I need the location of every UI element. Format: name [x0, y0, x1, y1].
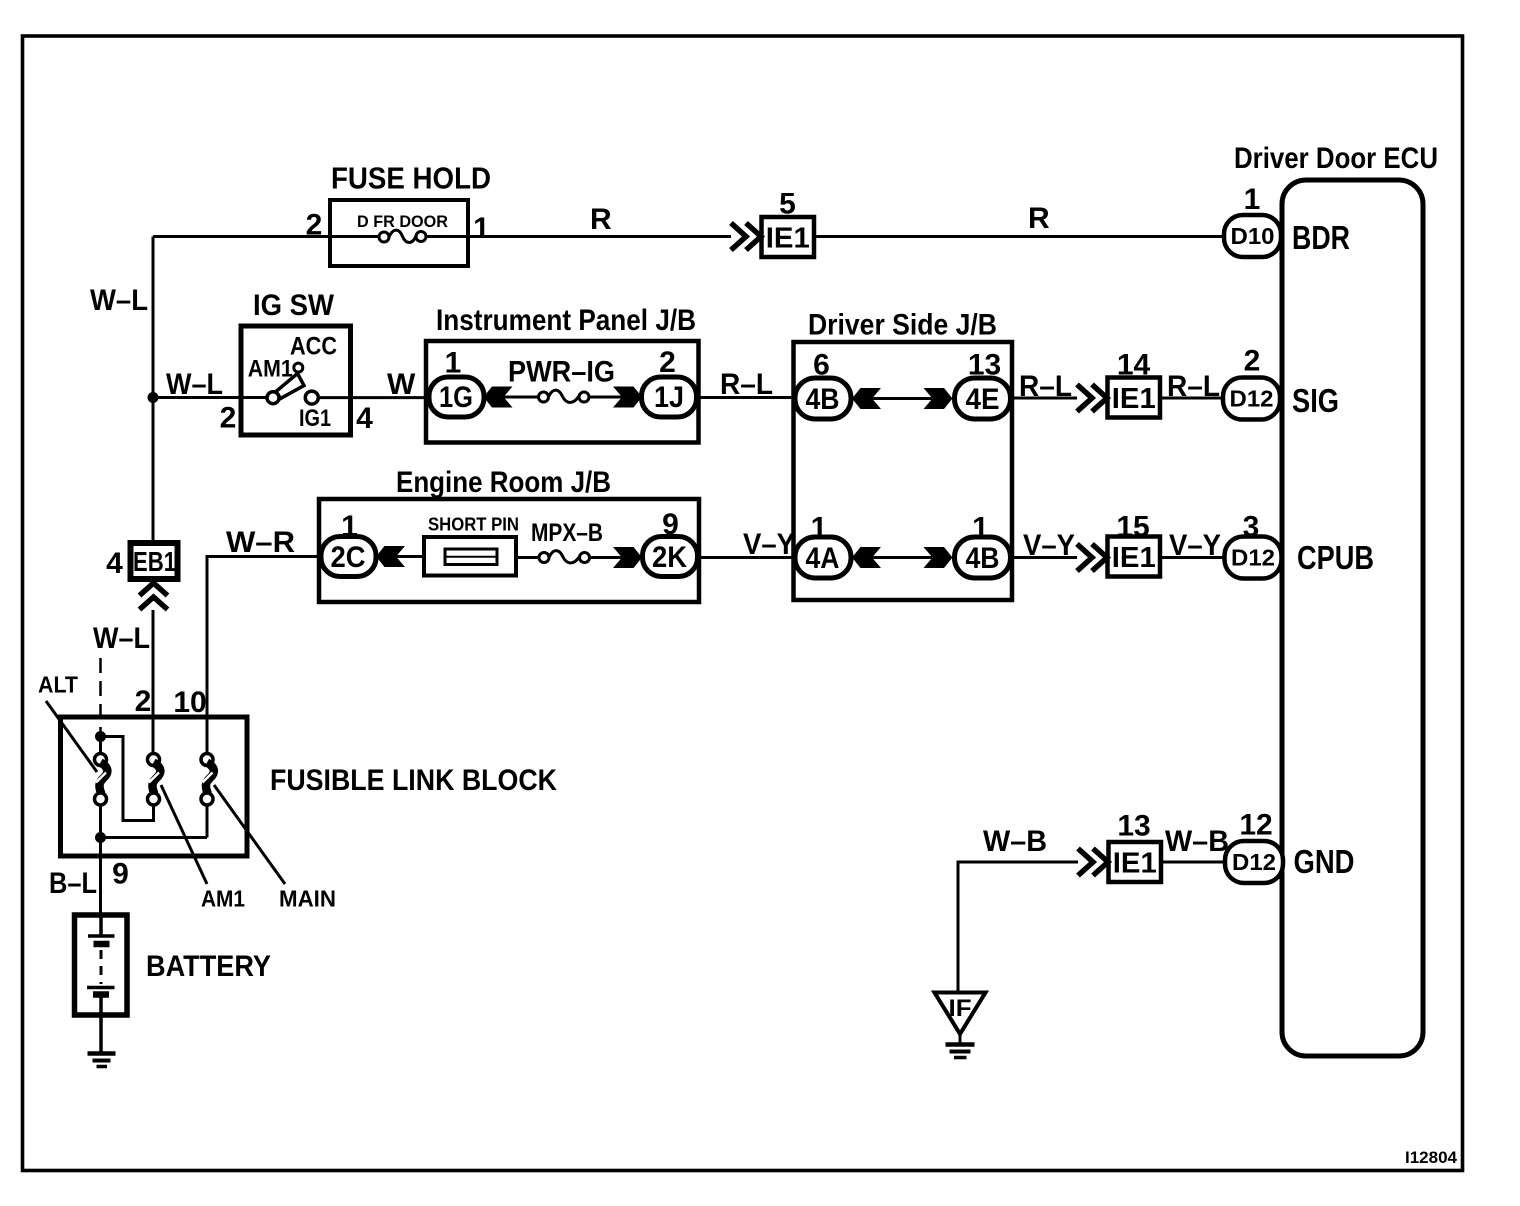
- arrow left DSJB upper: [852, 388, 881, 409]
- ground battery: [88, 1051, 116, 1056]
- svg-text:D10: D10: [1231, 223, 1275, 249]
- fuse D FR DOOR box: [330, 200, 468, 266]
- wire fuse PWR-IG: [504, 396, 540, 399]
- svg-text:V–Y: V–Y: [1169, 529, 1221, 562]
- connector 4B lower: [955, 537, 1011, 578]
- svg-text:SIG: SIG: [1292, 382, 1339, 419]
- svg-text:2C: 2C: [331, 541, 366, 574]
- svg-text:4: 4: [106, 547, 123, 580]
- svg-text:1: 1: [473, 212, 490, 245]
- connector 4E: [955, 378, 1011, 419]
- junction block Driver Side J/B: [794, 342, 1013, 600]
- svg-text:B–L: B–L: [49, 867, 97, 900]
- wire into IG SW: [153, 396, 267, 399]
- svg-text:R: R: [590, 203, 612, 236]
- svg-text:D12: D12: [1232, 849, 1276, 875]
- arrow right ERJB: [613, 547, 642, 568]
- svg-text:FUSIBLE LINK BLOCK: FUSIBLE LINK BLOCK: [270, 764, 557, 797]
- svg-text:IE1: IE1: [1113, 848, 1157, 880]
- svg-text:W–L: W–L: [93, 622, 150, 655]
- wire W-B IE1 to D12: [1161, 861, 1225, 864]
- svg-text:IE1: IE1: [766, 223, 810, 255]
- wire R-L 4E to IE1: [1011, 397, 1077, 400]
- svg-text:Driver Side J/B: Driver Side J/B: [808, 309, 997, 342]
- connector D10 pin1: [1224, 215, 1281, 257]
- connector 2C: [321, 537, 376, 577]
- connector 4B upper: [795, 378, 851, 419]
- switch contact IG1: [305, 391, 318, 404]
- svg-text:GND: GND: [1294, 843, 1355, 880]
- chevron into IE1 row1: [731, 223, 761, 250]
- svg-text:D12: D12: [1230, 386, 1274, 412]
- battery box: [75, 915, 128, 1015]
- svg-text:PWR–IG: PWR–IG: [508, 356, 615, 389]
- svg-text:3: 3: [1243, 511, 1260, 544]
- svg-text:R–L: R–L: [1019, 370, 1072, 403]
- svg-text:MPX–B: MPX–B: [531, 519, 603, 547]
- switch lever: [276, 374, 304, 399]
- wire ALT dashed: [99, 658, 102, 731]
- wire R row1 left: [153, 235, 330, 238]
- connector D12 pin2: [1223, 378, 1280, 420]
- arrow left ERJB: [376, 546, 405, 567]
- bus bottom: [101, 836, 208, 839]
- connector IE1 pin14: [1108, 378, 1161, 418]
- svg-text:1: 1: [1244, 183, 1261, 216]
- arrow right DSJB lower: [924, 547, 953, 568]
- wire V-Y 4B to IE1: [1011, 556, 1077, 559]
- svg-text:5: 5: [779, 188, 796, 221]
- svg-text:2: 2: [220, 402, 237, 435]
- switch contact ACC: [294, 363, 303, 372]
- svg-text:2: 2: [306, 209, 323, 242]
- svg-text:1: 1: [972, 512, 989, 545]
- svg-text:BATTERY: BATTERY: [146, 950, 271, 983]
- wire V-Y 2K to 4A: [697, 556, 794, 559]
- connector 1G: [429, 377, 484, 417]
- svg-text:15: 15: [1116, 511, 1149, 544]
- svg-text:AM1: AM1: [201, 886, 245, 912]
- connector IE1 pin5: [762, 217, 815, 257]
- switch contact AM1: [267, 392, 279, 404]
- svg-text:4B: 4B: [806, 383, 840, 416]
- svg-text:W–B: W–B: [1165, 825, 1229, 858]
- svg-text:W–L: W–L: [90, 284, 148, 317]
- chevron below EB1: [140, 583, 168, 610]
- svg-text:IG SW: IG SW: [253, 289, 335, 322]
- fusible link ALT: [99, 737, 102, 754]
- svg-text:W–B: W–B: [983, 825, 1047, 858]
- arrow right DSJB upper: [924, 388, 953, 409]
- svg-text:2: 2: [135, 685, 152, 718]
- svg-text:2: 2: [659, 346, 676, 379]
- connector 2K: [643, 537, 698, 577]
- ALT pointer: [46, 701, 97, 772]
- svg-text:4: 4: [356, 402, 373, 435]
- svg-text:1G: 1G: [439, 381, 473, 414]
- svg-text:W: W: [387, 368, 416, 401]
- junction block Engine Room J/B: [319, 499, 699, 602]
- ground IF lines: [946, 1042, 975, 1047]
- wire R row1 right: [814, 235, 1224, 238]
- svg-text:FUSE HOLD: FUSE HOLD: [331, 161, 491, 196]
- junction block Instrument Panel J/B: [426, 341, 699, 443]
- svg-text:BDR: BDR: [1292, 219, 1350, 256]
- svg-text:W–R: W–R: [226, 526, 295, 559]
- svg-text:MAIN: MAIN: [279, 886, 336, 912]
- svg-text:10: 10: [173, 686, 206, 719]
- chevron into IE1 row3: [1077, 544, 1107, 571]
- wire W-L vertical main: [152, 237, 155, 541]
- svg-text:1J: 1J: [654, 381, 684, 414]
- svg-text:IE1: IE1: [1112, 542, 1156, 574]
- wire DSJB upper: [872, 397, 932, 400]
- svg-text:R–L: R–L: [720, 368, 773, 401]
- svg-text:Instrument Panel J/B: Instrument Panel J/B: [436, 304, 696, 337]
- connector IE1 pin13: [1109, 842, 1162, 882]
- short pin box: [424, 537, 516, 576]
- ground IF triangle: [935, 993, 986, 1035]
- arrow right IPJB: [613, 387, 642, 408]
- connector 1J: [642, 377, 697, 417]
- svg-text:IF: IF: [949, 995, 972, 1022]
- wire R-L 1J to 4B: [696, 396, 794, 399]
- node ALT junction: [95, 731, 106, 742]
- svg-text:12: 12: [1239, 809, 1272, 842]
- wire to battery: [99, 838, 102, 916]
- svg-text:AM1: AM1: [248, 356, 293, 383]
- wire to short pin: [396, 555, 424, 558]
- chevron into IE1 row2: [1077, 385, 1107, 412]
- node battery junction: [95, 832, 106, 843]
- svg-text:IE1: IE1: [1112, 383, 1156, 415]
- svg-text:4B: 4B: [966, 542, 1000, 575]
- AM1 pointer: [161, 785, 207, 884]
- connector IE1 pin15: [1108, 537, 1161, 577]
- svg-text:ACC: ACC: [290, 333, 337, 361]
- fuse symbol D FR DOOR: [330, 235, 379, 238]
- svg-text:14: 14: [1117, 349, 1151, 382]
- svg-text:R: R: [1028, 202, 1050, 235]
- connector 4A: [795, 537, 851, 578]
- Driver Door ECU U1: [1282, 180, 1423, 1056]
- battery cell symbols: [99, 915, 103, 936]
- svg-text:2: 2: [1244, 345, 1261, 378]
- wire R to IE1: [468, 235, 731, 238]
- svg-text:13: 13: [968, 349, 1001, 382]
- wire V-Y IE1 to D12: [1160, 556, 1224, 559]
- fusible link AM1: [148, 754, 160, 766]
- svg-text:IG1: IG1: [299, 405, 331, 432]
- svg-text:I12804: I12804: [1405, 1148, 1458, 1167]
- wire R-L IE1 to D12: [1160, 397, 1223, 400]
- svg-text:SHORT PIN: SHORT PIN: [428, 515, 519, 535]
- svg-text:4E: 4E: [966, 383, 1000, 416]
- svg-text:Engine Room J/B: Engine Room J/B: [396, 466, 611, 499]
- connector D12 pin12: [1225, 841, 1283, 883]
- wire DSJB lower: [872, 556, 932, 559]
- arrow left DSJB lower: [852, 547, 881, 568]
- svg-text:R–L: R–L: [1167, 370, 1220, 403]
- fusible link block box: [61, 717, 248, 856]
- node junction at IG SW row: [148, 392, 159, 403]
- fusible link MAIN: [206, 740, 209, 754]
- svg-text:D12: D12: [1231, 545, 1275, 571]
- wire W-B: [958, 862, 1078, 993]
- svg-text:9: 9: [662, 508, 679, 541]
- svg-text:V–Y: V–Y: [743, 528, 795, 561]
- svg-text:9: 9: [112, 858, 129, 891]
- wire W-R: [207, 557, 321, 754]
- connector D12 pin3: [1225, 537, 1282, 579]
- arrow left IPJB: [484, 387, 513, 408]
- MAIN pointer: [214, 785, 285, 884]
- chevron into IE1 row4: [1078, 849, 1108, 876]
- svg-text:D FR DOOR: D FR DOOR: [357, 212, 448, 231]
- connector EB1 pin4: [131, 543, 178, 579]
- wire out of IG SW: [318, 396, 426, 399]
- fuse MPX-B: [516, 556, 539, 559]
- svg-text:V–Y: V–Y: [1023, 529, 1075, 562]
- switch IG SW box: [241, 326, 351, 435]
- svg-text:Driver Door ECU: Driver Door ECU: [1234, 142, 1438, 175]
- svg-text:13: 13: [1117, 810, 1150, 843]
- svg-text:ALT: ALT: [38, 672, 78, 698]
- svg-text:4A: 4A: [806, 542, 840, 575]
- svg-text:EB1: EB1: [133, 546, 176, 577]
- wire W-L to fusible link: [152, 610, 155, 754]
- svg-text:CPUB: CPUB: [1297, 539, 1374, 576]
- svg-text:2K: 2K: [652, 541, 687, 574]
- jumper ALT to AM1 fuse: [101, 737, 154, 821]
